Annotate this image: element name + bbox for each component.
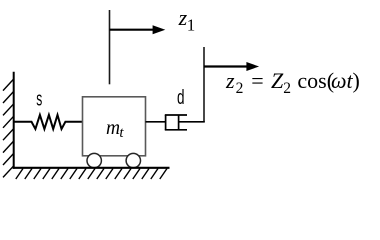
svg-text:2: 2 (283, 80, 291, 97)
damper d piston (178, 115, 180, 130)
wall hatching (3, 79, 14, 177)
node z2 vertical line (excitation input) (203, 47, 205, 122)
wall (fixed support, left) (13, 72, 15, 169)
svg-text:2: 2 (236, 80, 244, 97)
svg-text:Z: Z (271, 68, 284, 93)
damper d rod to z2 line (179, 121, 205, 123)
ground hatching (16, 169, 167, 180)
roller wheel left (87, 153, 101, 167)
svg-text:1: 1 (187, 15, 196, 34)
svg-text:cos(: cos( (297, 68, 334, 93)
spring s (14, 115, 83, 129)
arrow z1 (110, 25, 166, 34)
arrow z2 (204, 62, 259, 71)
svg-text:=: = (251, 68, 263, 93)
svg-text:d: d (177, 87, 185, 109)
svg-text:z: z (225, 68, 235, 93)
svg-text:): ) (353, 68, 360, 93)
label z2 = Z2 cos(wt) (225, 68, 360, 97)
ground line (13, 167, 170, 169)
svg-text:s: s (36, 89, 42, 111)
svg-text:ωt: ωt (331, 68, 354, 93)
damper d cylinder (165, 115, 187, 130)
node z1 reference vertical line (109, 10, 111, 84)
mass m_t block (83, 97, 146, 156)
damper d rod from mass (146, 121, 166, 123)
svg-text:m: m (106, 118, 120, 139)
roller wheel right (126, 153, 140, 167)
label z1 (178, 5, 196, 35)
label m_t (106, 118, 124, 141)
